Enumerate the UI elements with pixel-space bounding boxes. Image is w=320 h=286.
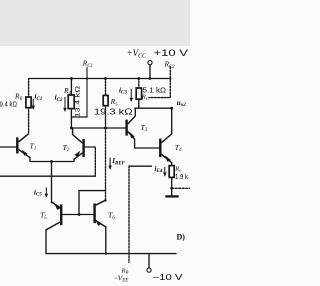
svg-text:iC5: iC5 bbox=[34, 188, 42, 197]
transistor T5 bbox=[46, 202, 61, 230]
wire VCC terminal stem bbox=[149, 65, 151, 79]
wire mirror bracket bbox=[79, 191, 106, 215]
junction rail-RC2 bbox=[137, 77, 140, 80]
svg-text:13.4 kΩ: 13.4 kΩ bbox=[74, 86, 81, 118]
junction R5-T3 base line bbox=[104, 127, 107, 130]
junction T6 collector bbox=[104, 199, 106, 201]
svg-text:D): D) bbox=[177, 233, 186, 242]
wire RC2 column from rail bbox=[138, 79, 140, 89]
resistor Re bbox=[169, 166, 174, 178]
wire T3 emitter to T4 base bbox=[135, 139, 160, 148]
svg-text:T5: T5 bbox=[40, 211, 47, 221]
junction mirror bases bbox=[78, 213, 81, 216]
wire RC2 bottom to node C bbox=[138, 99, 140, 108]
wire RC1 bottom to T1 collector bbox=[28, 108, 30, 134]
svg-text:iC2: iC2 bbox=[55, 94, 63, 103]
wire R4 bottom to node B bbox=[70, 109, 72, 128]
wire T2 base route right and down bbox=[85, 147, 96, 176]
current arrow iC2 bbox=[64, 97, 66, 109]
wire ground stem bbox=[171, 188, 173, 195]
transistor T2 bbox=[73, 128, 84, 159]
svg-text:iC3: iC3 bbox=[119, 86, 127, 95]
svg-text:1.9 k: 1.9 k bbox=[175, 174, 188, 181]
svg-text:9.4 kΩ: 9.4 kΩ bbox=[0, 101, 17, 108]
current arrow IREF bbox=[109, 158, 111, 167]
svg-text:19.3 kΩ: 19.3 kΩ bbox=[94, 107, 133, 116]
junction emitters tail bbox=[50, 160, 53, 163]
current arrow iC5 bbox=[45, 187, 47, 194]
current arrows bbox=[32, 89, 167, 197]
wire node B to T3 base bbox=[71, 127, 126, 129]
svg-text:T6: T6 bbox=[108, 211, 115, 221]
wire RC2 label leader bbox=[149, 67, 170, 98]
resistor RC1 bbox=[26, 97, 31, 108]
current arrow iC3 bbox=[130, 89, 132, 99]
transistor T1 bbox=[17, 133, 30, 157]
wire T6 emitter to bottom rail bbox=[105, 227, 107, 254]
resistor R4 bbox=[68, 95, 74, 109]
junction Re bottom bbox=[170, 187, 173, 190]
terminal +VCC bbox=[148, 61, 152, 65]
wire tail column down to mirror bbox=[51, 162, 53, 203]
svg-text:+VCC: +VCC bbox=[127, 48, 146, 60]
wire Re bottom to ground node bbox=[171, 177, 173, 188]
svg-text:T4: T4 bbox=[175, 143, 182, 153]
svg-text:T1: T1 bbox=[30, 141, 37, 151]
svg-text:RC1: RC1 bbox=[82, 59, 93, 69]
svg-text:T2: T2 bbox=[63, 143, 70, 153]
junction rail-R5 bbox=[104, 77, 107, 80]
resistor RC2 bbox=[136, 88, 141, 99]
wire output column to T4 collector bbox=[171, 108, 173, 133]
svg-text:iE4: iE4 bbox=[155, 165, 163, 174]
transistor T4 bbox=[160, 134, 171, 163]
svg-text:··VEE: ··VEE bbox=[114, 273, 128, 283]
svg-text:RC2: RC2 bbox=[164, 60, 176, 70]
svg-text:Re: Re bbox=[174, 165, 181, 172]
junction rail-Rw bbox=[86, 77, 88, 79]
wire R4 column from rail to box bbox=[70, 79, 72, 96]
svg-text:−10 V: −10 V bbox=[153, 273, 184, 282]
junction rail-VCC bbox=[149, 77, 152, 80]
wire tail line (emitters T1 T2) bbox=[30, 158, 74, 162]
wire node C line to output column bbox=[135, 107, 172, 109]
svg-text:5.1 kΩ: 5.1 kΩ bbox=[143, 86, 167, 95]
wire Rw leader horizontal to R4 bottom bbox=[71, 116, 87, 118]
wire bottom rail VEE bbox=[46, 253, 176, 255]
wire output stub right bbox=[172, 187, 190, 189]
current arrow iE4 bbox=[164, 167, 166, 173]
wire T3 collector to node C bbox=[134, 108, 136, 115]
junction rail-T6 emitter bbox=[105, 252, 107, 254]
svg-text:R5: R5 bbox=[110, 97, 119, 107]
wire left column from rail to RC1 bbox=[28, 79, 30, 98]
wire T1 base input bbox=[0, 146, 16, 148]
wire VEE terminal stem bbox=[148, 254, 150, 268]
wire RB column from T4 emitter node bbox=[128, 166, 130, 262]
junction rail-R4 bbox=[70, 77, 73, 80]
wire Rw label leader vertical bbox=[86, 68, 88, 118]
wire top rail VCC bbox=[29, 78, 171, 80]
wire long base-return line bbox=[0, 175, 95, 177]
wire T5 emitter to bottom rail bbox=[45, 230, 47, 254]
svg-text:uo2: uo2 bbox=[177, 99, 186, 108]
wire R5 bottom to node B line bbox=[105, 106, 107, 128]
ground bbox=[165, 195, 178, 197]
transistor T6 bbox=[95, 200, 106, 227]
resistor R5 bbox=[103, 95, 108, 105]
wire T4 emitter to Re bbox=[171, 163, 173, 166]
transistor T3 bbox=[127, 116, 136, 139]
wire mirror base line bbox=[62, 214, 94, 216]
node B junction R4/T2 collector bbox=[70, 127, 73, 130]
wire IREF column down to mirror bracket bbox=[105, 128, 107, 200]
grey header band bbox=[0, 0, 190, 46]
current arrow iC1 bbox=[32, 99, 34, 107]
svg-text:T3: T3 bbox=[141, 123, 148, 133]
svg-text:iC1: iC1 bbox=[35, 93, 43, 102]
svg-text:R4: R4 bbox=[63, 86, 72, 96]
terminal -VEE bbox=[147, 268, 151, 272]
svg-text:RC: RC bbox=[141, 94, 150, 101]
wire T4 emitter node horizontal bbox=[129, 165, 152, 167]
svg-text:+10 V: +10 V bbox=[154, 47, 190, 58]
wire R5 column from rail bbox=[105, 79, 107, 96]
node uo2 junction bbox=[170, 107, 173, 110]
svg-text:IREF: IREF bbox=[111, 157, 125, 166]
